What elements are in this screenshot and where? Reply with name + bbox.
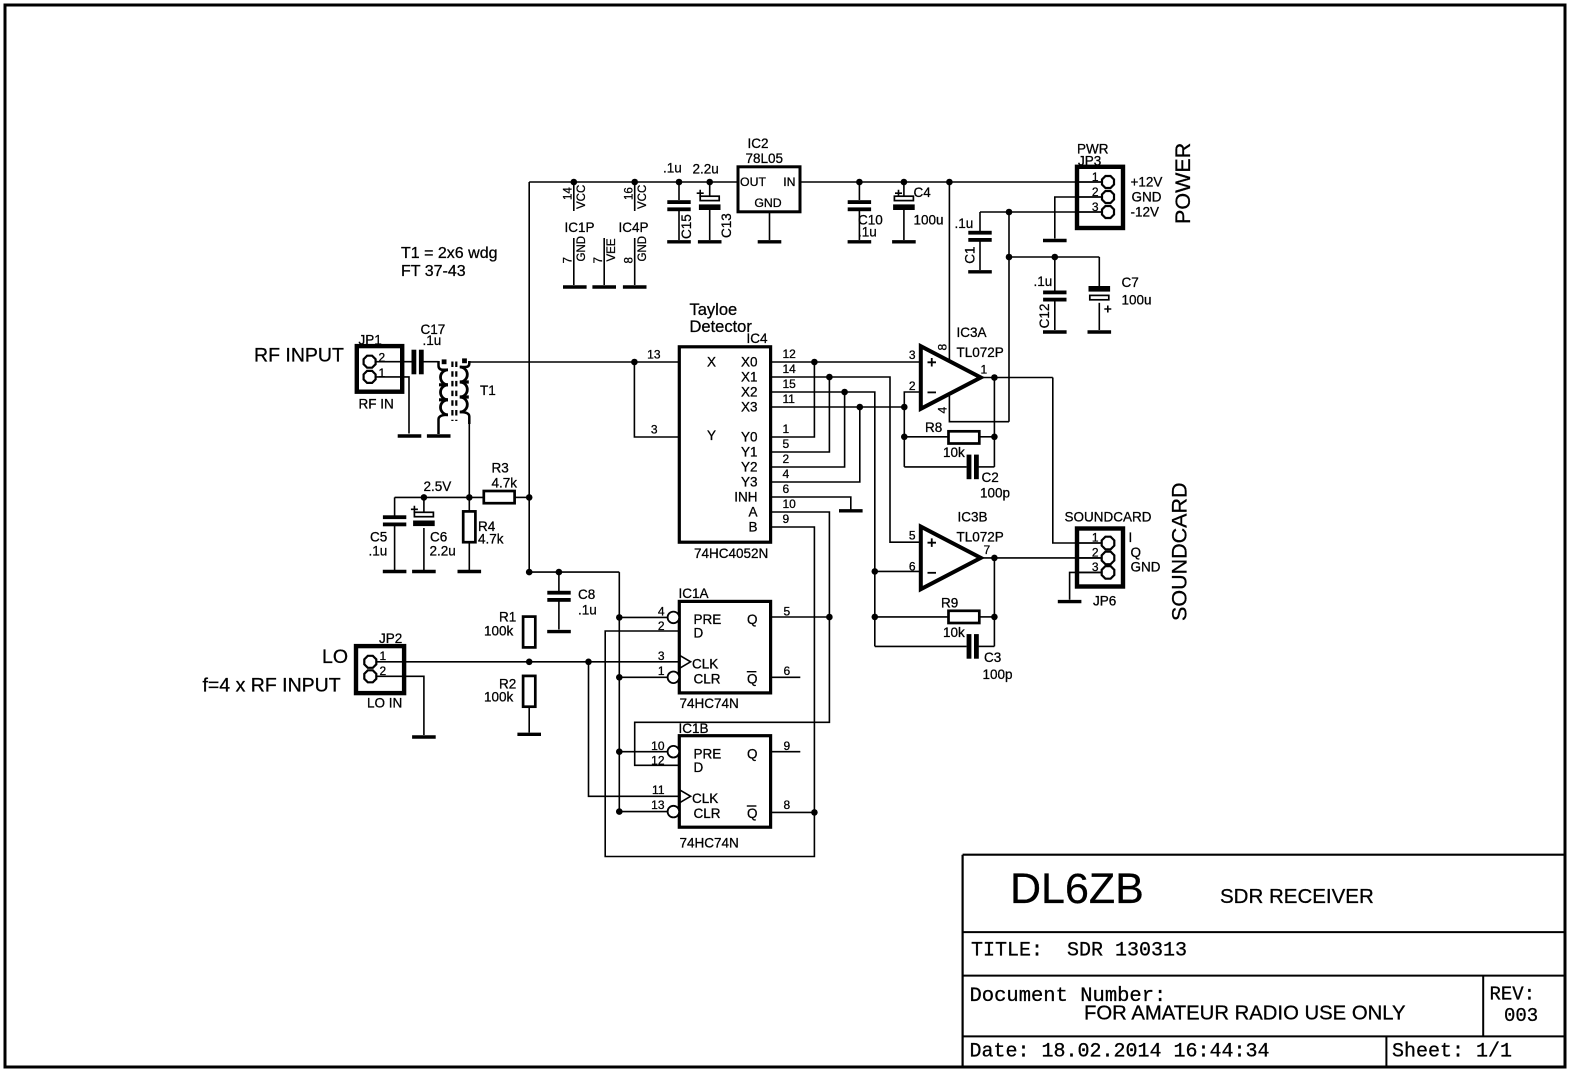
wire C15 top [678, 182, 680, 200]
wire C2 left [904, 466, 966, 468]
svg-text:Q: Q [1131, 545, 1142, 560]
wire IC3A output [980, 377, 1053, 379]
bubble PRE IC1B [668, 746, 680, 758]
svg-text:2: 2 [1092, 545, 1099, 559]
svg-text:Detector: Detector [690, 318, 753, 336]
op-amp IC3B minus sign [928, 572, 937, 574]
pin circle JP3-3 [1102, 206, 1114, 218]
svg-text:RF INPUT: RF INPUT [254, 345, 344, 367]
svg-text:INH: INH [734, 490, 757, 505]
svg-text:14: 14 [783, 362, 797, 376]
resistor R3 [484, 491, 515, 503]
pin circle JP3-2 [1102, 191, 1114, 203]
svg-text:IC3B: IC3B [958, 510, 988, 525]
svg-text:C1: C1 [963, 247, 978, 264]
connector JP3 body [1077, 167, 1123, 228]
svg-text:100p: 100p [980, 486, 1010, 501]
ground C1 [968, 270, 992, 273]
junction R8 left [901, 434, 908, 441]
wire C1 top [979, 212, 981, 231]
ground IC4P [623, 285, 647, 288]
svg-text:Q: Q [747, 806, 758, 821]
resistor R8 [949, 431, 980, 443]
pin circle JP1-1 [364, 371, 376, 383]
connector JP6 body [1077, 529, 1123, 587]
svg-text:FOR AMATEUR RADIO USE ONLY: FOR AMATEUR RADIO USE ONLY [1084, 1003, 1406, 1025]
wire IC1A D from IC1B Qbar [605, 631, 814, 857]
svg-text:CLK: CLK [692, 791, 718, 806]
junction R8 right [991, 434, 998, 441]
wire C6 bottom [423, 528, 425, 570]
connector JP2 body [356, 646, 404, 693]
svg-text:6: 6 [784, 664, 791, 678]
svg-text:74HC74N: 74HC74N [680, 696, 739, 711]
junction IC1B Qbar / B / D loop [811, 809, 818, 816]
ground JP3 [1043, 239, 1067, 242]
wire IC4 Y pin [634, 362, 679, 437]
wire JP3 pin2 stub [1079, 196, 1102, 198]
svg-text:C8: C8 [578, 587, 595, 602]
svg-text:TL072P: TL072P [957, 530, 1004, 545]
wire IC3A minus stub [904, 392, 919, 467]
pin circle JP3-1 [1102, 176, 1114, 188]
svg-text:2: 2 [783, 452, 790, 466]
svg-text:C7: C7 [1122, 275, 1139, 290]
capacitor C1 [968, 231, 991, 242]
svg-text:VEE: VEE [606, 238, 618, 261]
svg-text:GND: GND [637, 236, 649, 262]
wire JP3 GND [1055, 197, 1102, 239]
wire 2.5V row [395, 496, 484, 498]
svg-text:IC1A: IC1A [679, 586, 709, 601]
svg-text:C12: C12 [1037, 304, 1052, 329]
junction IC1A PRE on 5V [616, 614, 623, 621]
junction IC1A Q / A branch [826, 614, 833, 621]
wire R3 to 5V [515, 496, 530, 498]
svg-text:CLK: CLK [692, 657, 718, 672]
ground C7 [1088, 330, 1112, 333]
wire C5 bottom [394, 525, 396, 570]
capacitor C6 [411, 506, 435, 526]
junction C15 on rail [676, 179, 683, 186]
wire IC1A Q [771, 616, 830, 618]
svg-text:4.7k: 4.7k [492, 476, 518, 491]
ground C6 [412, 570, 436, 573]
ground JP6 [1058, 600, 1082, 603]
junction IC3B minus [872, 568, 879, 575]
wire R9 left [875, 616, 949, 618]
svg-text:VCC: VCC [576, 185, 588, 209]
svg-text:.1u: .1u [578, 603, 597, 618]
svg-text:-12V: -12V [1131, 205, 1160, 220]
svg-text:12: 12 [783, 347, 797, 361]
svg-text:IC2: IC2 [748, 136, 769, 151]
svg-text:SDR RECEIVER: SDR RECEIVER [1220, 885, 1374, 908]
svg-text:JP2: JP2 [379, 631, 402, 646]
svg-text:9: 9 [784, 739, 791, 753]
capacitor C4 [893, 190, 915, 210]
wire C17 to T1 [424, 361, 439, 363]
wire IC1A PRE [619, 616, 667, 618]
junction +12V branch to IC3 pin8 [946, 179, 953, 186]
svg-text:Q: Q [747, 672, 758, 687]
ground IC2 [758, 240, 782, 243]
svg-text:IC3A: IC3A [957, 325, 987, 340]
wire 5V rail [529, 181, 738, 183]
wire IC3A output feedback vertical [993, 378, 995, 467]
pin circle JP6-1 [1102, 537, 1115, 550]
wire IC4P VCC pin 16 stub [634, 182, 636, 211]
svg-text:5: 5 [783, 437, 790, 451]
op-amp IC3B plus sign [928, 538, 937, 547]
wire C8 top [558, 572, 560, 591]
wire C5 top [394, 497, 396, 516]
flip-flop IC1B body [679, 736, 770, 828]
wire C2 right [979, 466, 995, 468]
wire X3 to IC3A - node [771, 406, 905, 408]
capacitor C12 [1043, 291, 1066, 302]
wire IC3B output feedback vertical [993, 558, 995, 647]
svg-text:11: 11 [652, 783, 665, 797]
wire C13 top [709, 182, 711, 196]
wire LO row [377, 661, 680, 663]
wire 5V link to C8/IC1 [529, 571, 619, 573]
svg-text:T1 = 2x6 wdg: T1 = 2x6 wdg [401, 245, 498, 262]
connector JP1 body [357, 346, 402, 392]
wire T1 bottom to 2.5V node [468, 424, 470, 497]
pin circle JP2-2 [364, 670, 376, 682]
svg-text:R8: R8 [925, 420, 942, 435]
wire X1-Y1 tie [771, 377, 830, 452]
junction C12 [1052, 254, 1059, 261]
junction C10 on rail [856, 179, 863, 186]
multiplexer IC4 body [679, 347, 770, 542]
svg-text:1: 1 [1092, 531, 1099, 545]
capacitor C17 [412, 350, 424, 375]
svg-text:5: 5 [909, 529, 916, 543]
ground C8 [547, 630, 571, 633]
wire -12V to C12 C7 [1009, 256, 1099, 258]
svg-text:16: 16 [623, 187, 635, 200]
wire IC4 B from IC1B Qbar [771, 527, 815, 812]
svg-text:C15: C15 [679, 214, 694, 239]
svg-text:Tayloe: Tayloe [690, 301, 738, 319]
wire JP1 pin1 to ground [376, 377, 409, 434]
junction 5V corner [526, 569, 533, 576]
svg-text:Y0: Y0 [741, 430, 758, 445]
svg-text:JP3: JP3 [1078, 154, 1101, 169]
capacitor C5 [383, 515, 406, 526]
svg-text:7: 7 [563, 257, 575, 263]
wire X0-Y0 tie [771, 362, 815, 437]
svg-text:C4: C4 [914, 185, 932, 200]
overbar Qbar IC1B [747, 805, 757, 807]
svg-text:GND: GND [754, 196, 781, 210]
svg-text:D: D [694, 626, 704, 641]
wire IC1B Qbar [771, 811, 815, 813]
ground C5 [383, 570, 407, 573]
svg-text:100k: 100k [484, 690, 514, 705]
junction 2.5V at T1/R4 [466, 494, 473, 501]
junction IC3B output [991, 555, 998, 562]
pin circle JP6-3 [1102, 566, 1115, 579]
svg-text:Y1: Y1 [741, 445, 758, 460]
svg-text:X2: X2 [741, 385, 758, 400]
wire C7 top [1098, 257, 1100, 286]
svg-text:8: 8 [784, 798, 791, 812]
svg-text:1: 1 [981, 363, 988, 377]
op-amp IC3A triangle [921, 346, 981, 409]
svg-text:OUT: OUT [740, 175, 766, 189]
svg-text:LO IN: LO IN [367, 696, 402, 711]
wire 5V vertical to IC1 PRE/CLR [618, 572, 620, 812]
op-amp IC3A plus sign [928, 358, 937, 367]
capacitor C2 [967, 455, 979, 480]
wire LO to IC1B CLK [589, 662, 680, 797]
wire R8 right [979, 436, 994, 438]
svg-text:100u: 100u [914, 213, 944, 228]
svg-text:3: 3 [909, 348, 916, 362]
flip-flop IC1A body [679, 601, 770, 693]
wire C13 bottom [709, 210, 711, 240]
ground T1 [427, 434, 451, 437]
svg-text:DL6ZB: DL6ZB [1010, 865, 1144, 913]
svg-text:Y: Y [707, 428, 716, 443]
wire JP3 pin1 stub [1079, 181, 1102, 183]
svg-text:X1: X1 [741, 370, 758, 385]
pin circle JP6-2 [1102, 552, 1115, 565]
svg-text:003: 003 [1504, 1005, 1538, 1027]
svg-text:X: X [707, 355, 716, 370]
junction IC3A output [991, 374, 998, 381]
resistor R4 [463, 511, 475, 542]
svg-text:Q: Q [747, 612, 758, 627]
svg-text:REV:: REV: [1490, 984, 1536, 1006]
svg-text:2.2u: 2.2u [693, 162, 719, 177]
wire JP6 pin3 to ground [1070, 572, 1102, 599]
svg-text:CLR: CLR [694, 806, 721, 821]
svg-text:1: 1 [380, 649, 387, 663]
svg-text:C13: C13 [719, 213, 734, 238]
wire INH to ground [771, 497, 851, 510]
bubble CLR IC1A [668, 672, 680, 684]
clk triangle IC1B [679, 790, 690, 803]
junction -12V branch [1006, 209, 1013, 216]
transformer T1 phase dots [442, 358, 467, 364]
wire IC3B output Q to JP6 [980, 557, 1102, 559]
svg-text:11: 11 [783, 392, 796, 406]
svg-text:1: 1 [658, 664, 665, 678]
wire JP3 pin3 stub [1079, 211, 1102, 213]
svg-text:SOUNDCARD: SOUNDCARD [1168, 482, 1192, 621]
wire JP6 pin2 stub [1079, 557, 1102, 559]
svg-text:10k: 10k [943, 625, 965, 640]
wire C4 top [903, 182, 905, 196]
svg-text:4.7k: 4.7k [478, 532, 504, 547]
ground JP1 [398, 434, 422, 437]
wire -12V vertical [1008, 212, 1010, 422]
svg-text:X0: X0 [741, 355, 758, 370]
wire IC1B CLR [619, 811, 667, 813]
wire IC1P VCC pin 14 stub [573, 182, 575, 211]
wire C4 bottom [903, 210, 905, 240]
junction C8 [556, 569, 563, 576]
junction -12V C12/C7 branch [1006, 254, 1013, 261]
wire C15 bottom [678, 210, 680, 240]
svg-text:10: 10 [651, 739, 665, 753]
svg-text:7: 7 [984, 543, 991, 557]
wire IC1P VEE pin 7 stub [603, 238, 605, 285]
svg-text:15: 15 [783, 377, 797, 391]
svg-text:IC1B: IC1B [679, 721, 709, 736]
wire C7 bottom [1098, 303, 1100, 330]
wire T1 to IC4 X pin 13 [469, 361, 679, 363]
svg-text:A: A [748, 505, 757, 520]
svg-text:78L05: 78L05 [746, 151, 784, 166]
wire C3 left [875, 645, 967, 647]
title block outline [963, 855, 1564, 1066]
junction 2.5V at C6 [421, 494, 428, 501]
svg-text:13: 13 [651, 798, 665, 812]
capacitor C10 [848, 200, 871, 211]
svg-text:C5: C5 [370, 530, 387, 545]
wire IC1A Qbar stub [771, 676, 801, 678]
svg-text:6: 6 [783, 482, 790, 496]
wire IC1B Q stub [771, 751, 801, 753]
wire -12V to IC3A pin4 [949, 396, 1009, 422]
wire R8 left [904, 436, 948, 438]
svg-text:.1u: .1u [858, 225, 877, 240]
svg-text:.1u: .1u [369, 544, 388, 559]
wire X1 to IC3B + [771, 377, 920, 542]
svg-text:Sheet: 1/1: Sheet: 1/1 [1392, 1041, 1512, 1064]
svg-text:3: 3 [651, 423, 658, 437]
pin circle JP1-2 [364, 356, 376, 368]
junction R3 on 5V vertical [526, 494, 533, 501]
capacitor C15 [667, 200, 690, 211]
wire X3-Y3 tie [771, 407, 860, 482]
svg-text:R9: R9 [941, 596, 958, 611]
wire X2-Y2 tie [771, 392, 845, 467]
svg-text:C3: C3 [984, 650, 1001, 665]
svg-text:1: 1 [1092, 170, 1099, 184]
svg-text:CLR: CLR [694, 672, 721, 687]
ground R2 [517, 733, 541, 736]
svg-text:Q: Q [747, 746, 758, 761]
svg-text:FT 37-43: FT 37-43 [401, 263, 466, 280]
wire IC1B PRE [619, 751, 667, 753]
wire IC4 A from IC1A Q [635, 512, 830, 765]
svg-text:+12V: +12V [1131, 175, 1163, 190]
svg-text:4: 4 [783, 467, 790, 481]
svg-text:JP1: JP1 [359, 333, 382, 348]
junction IC1B CLR on 5V [616, 808, 623, 815]
svg-text:74HC74N: 74HC74N [680, 836, 739, 851]
clk triangle IC1A [679, 655, 690, 668]
svg-text:9: 9 [783, 512, 790, 526]
svg-text:TL072P: TL072P [957, 345, 1004, 360]
wire -12V from JP3 pin3 [980, 211, 1102, 213]
svg-text:.1u: .1u [663, 161, 682, 176]
ground INH [839, 509, 863, 512]
wire JP6 pin3 stub [1079, 571, 1102, 573]
junction IC1P VCC on rail [571, 179, 578, 186]
transformer T1 core [452, 362, 456, 422]
wire IC1A CLR [619, 676, 667, 678]
svg-text:1: 1 [379, 366, 386, 380]
junction IC1B PRE on 5V [616, 748, 623, 755]
bubble CLR IC1B [668, 806, 680, 818]
capacitor C7 [1089, 286, 1112, 313]
junction X0/Y0 [811, 359, 818, 366]
wire C6 top [423, 497, 425, 512]
junction X3/Y3 [857, 404, 864, 411]
junction LO at R1/R2 [526, 659, 533, 666]
svg-text:4: 4 [658, 605, 665, 619]
svg-text:10k: 10k [943, 445, 965, 460]
wire IC4P GND pin 8 stub [634, 238, 636, 285]
resistor R9 [949, 611, 980, 623]
svg-text:GND: GND [1131, 560, 1161, 575]
svg-text:IC4: IC4 [747, 331, 769, 346]
ground C12 [1043, 330, 1067, 333]
transformer T1 right winding [460, 361, 470, 367]
junction C4 on rail [901, 179, 908, 186]
svg-text:.1u: .1u [955, 216, 974, 231]
svg-text:2.2u: 2.2u [430, 544, 456, 559]
svg-text:IC1P: IC1P [565, 220, 595, 235]
svg-text:4: 4 [936, 407, 950, 414]
junction X/Y branch [631, 359, 638, 366]
ground JP2 [412, 735, 436, 738]
svg-text:100p: 100p [983, 667, 1013, 682]
svg-text:JP6: JP6 [1093, 594, 1116, 609]
wire C3 right [979, 645, 995, 647]
svg-text:Date: 18.02.2014 16:44:34: Date: 18.02.2014 16:44:34 [970, 1041, 1270, 1064]
wire R2 bottom [528, 707, 530, 733]
junction R9 right [991, 614, 998, 621]
ground C10 [848, 240, 872, 243]
wire JP2 pin2 to ground [377, 676, 424, 735]
svg-text:14: 14 [563, 187, 575, 200]
svg-text:VCC: VCC [637, 185, 649, 209]
svg-text:f=4 x RF INPUT: f=4 x RF INPUT [203, 675, 341, 697]
junction R9 left [872, 614, 879, 621]
svg-text:IC4P: IC4P [619, 220, 649, 235]
svg-text:8: 8 [936, 344, 950, 351]
svg-text:R1: R1 [499, 610, 516, 625]
wire C12 top [1054, 257, 1056, 291]
capacitor C8 [547, 591, 570, 602]
svg-text:X3: X3 [741, 400, 758, 415]
wire X0 to IC3A + [771, 361, 920, 363]
wire IC3B minus stub [875, 570, 920, 572]
ground C4 [892, 240, 916, 243]
wire I signal to JP6 [1053, 378, 1101, 544]
svg-text:2.5V: 2.5V [424, 479, 452, 494]
svg-text:IN: IN [783, 175, 795, 189]
svg-text:TITLE: SDR 130313: TITLE: SDR 130313 [971, 940, 1187, 963]
op-amp IC3B triangle [921, 527, 981, 590]
ground C15 [667, 240, 691, 243]
svg-text:2: 2 [909, 379, 916, 393]
wire C10 top [858, 182, 860, 200]
svg-text:74HC4052N: 74HC4052N [694, 546, 768, 561]
svg-text:T1: T1 [480, 383, 496, 398]
wire +12V rail [800, 181, 1102, 183]
resistor R2 [523, 676, 535, 707]
wire C10 bottom [858, 210, 860, 240]
